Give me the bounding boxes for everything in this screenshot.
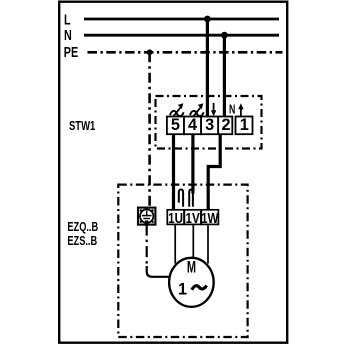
svg-text:2: 2: [221, 116, 230, 134]
svg-text:EZQ..B: EZQ..B: [67, 221, 98, 235]
svg-text:1U: 1U: [168, 210, 183, 227]
svg-text:1: 1: [240, 116, 249, 134]
svg-text:1V: 1V: [186, 210, 200, 227]
svg-text:EZS..B: EZS..B: [67, 235, 97, 249]
svg-text:4: 4: [188, 116, 197, 134]
svg-text:N: N: [229, 103, 235, 117]
svg-text:STW1: STW1: [69, 120, 95, 134]
svg-text:5: 5: [171, 116, 180, 134]
svg-text:N: N: [64, 26, 72, 43]
svg-text:M: M: [187, 257, 196, 276]
svg-text:L: L: [64, 11, 71, 28]
svg-text:1: 1: [178, 280, 187, 298]
svg-text:1W: 1W: [201, 210, 219, 227]
svg-text:3: 3: [205, 116, 214, 134]
svg-text:PE: PE: [64, 43, 79, 60]
